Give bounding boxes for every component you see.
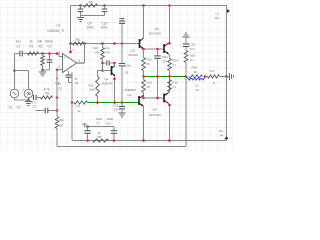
transistor Q5 2SC5200 bbox=[163, 44, 165, 53]
resistor R15z bbox=[184, 51, 188, 63]
wire Q5 emitter bbox=[169, 54, 170, 55]
svg-text:R17: R17 bbox=[210, 69, 216, 73]
svg-text:10: 10 bbox=[194, 70, 198, 74]
svg-text:2SA1943: 2SA1943 bbox=[149, 113, 162, 117]
svg-text:47n: 47n bbox=[190, 47, 195, 51]
node R2-C2 bbox=[48, 52, 51, 55]
node -in bbox=[56, 69, 59, 72]
op-amp U1 LM301A_TI bbox=[63, 54, 77, 73]
wire Q3 collector bbox=[143, 6, 145, 39]
flag fb top bbox=[85, 126, 88, 128]
capacitor C4 bbox=[80, 6, 82, 9]
svg-text:Q4: Q4 bbox=[153, 108, 157, 112]
node C3 bbox=[56, 109, 59, 112]
node R11 bottom bbox=[96, 101, 99, 104]
flag C16 top bbox=[120, 18, 125, 20]
node R7 left bbox=[71, 101, 74, 104]
svg-text:1u: 1u bbox=[196, 88, 200, 92]
capacitor C15 bbox=[183, 43, 189, 45]
node subrail-C8 bbox=[121, 42, 124, 45]
resistor R4 bbox=[56, 111, 58, 117]
node R9-Q1base bbox=[101, 69, 104, 72]
wire U1 -in pin bbox=[57, 69, 63, 71]
capacitor C14 bbox=[157, 49, 159, 56]
resistor R5 bbox=[84, 4, 98, 7]
capacitor C8 bbox=[119, 63, 125, 65]
node +in bend bbox=[56, 52, 59, 55]
svg-text:2SC5200: 2SC5200 bbox=[149, 32, 162, 36]
node R3 bbox=[56, 96, 59, 99]
node Q3e bbox=[142, 48, 145, 51]
wire V2 stub bbox=[15, 70, 29, 72]
node C14 top bbox=[156, 48, 159, 51]
wire U1 output bbox=[77, 62, 85, 64]
svg-text:C5: C5 bbox=[75, 81, 79, 85]
inductor L1 bbox=[190, 79, 204, 81]
svg-text:100n: 100n bbox=[87, 26, 94, 30]
wire output up to R6 bbox=[84, 44, 86, 64]
wire left input column bbox=[14, 54, 16, 89]
svg-text:-: - bbox=[64, 68, 65, 72]
capacitor C13 bbox=[121, 103, 123, 107]
svg-text:10: 10 bbox=[190, 58, 194, 62]
svg-text:C10: C10 bbox=[106, 122, 112, 126]
node R14 bot bbox=[168, 75, 171, 78]
svg-text:C2: C2 bbox=[48, 45, 52, 49]
svg-text:15v: 15v bbox=[219, 129, 224, 133]
resistor R8fb bbox=[93, 139, 109, 142]
svg-text:+: + bbox=[64, 56, 66, 60]
wire fb column down bbox=[71, 103, 73, 141]
transistor Q3 BD139 bbox=[139, 39, 141, 48]
svg-text:1k: 1k bbox=[30, 40, 34, 44]
capacitor C5 comp bbox=[66, 74, 72, 76]
svg-text:LM301A_TI: LM301A_TI bbox=[48, 29, 65, 33]
svg-text:Q2: Q2 bbox=[128, 93, 132, 97]
svg-text:R3: R3 bbox=[46, 92, 50, 96]
wire Q4 emitter up bbox=[169, 92, 170, 94]
node C10b bottom bbox=[113, 139, 116, 142]
wire Q1 base row bbox=[98, 70, 112, 72]
transistor Q1 MJE340 bbox=[111, 66, 113, 75]
resistor R6 bbox=[73, 42, 84, 45]
wire C6 row bbox=[103, 62, 106, 64]
svg-text:R4: R4 bbox=[60, 119, 64, 123]
ground load bbox=[227, 76, 230, 78]
wire Q4 collector down bbox=[169, 104, 170, 105]
wire U1 pin7 bbox=[70, 44, 72, 54]
node R2 gnd bbox=[41, 69, 44, 72]
svg-text:R9: R9 bbox=[96, 51, 100, 55]
svg-text:L2: L2 bbox=[216, 12, 220, 16]
wire to load node bbox=[220, 76, 227, 78]
node Q2e rail bbox=[142, 139, 145, 142]
resistor R12 bbox=[143, 49, 145, 58]
svg-text:V4: V4 bbox=[220, 134, 224, 138]
node C6-Q1 bbox=[113, 62, 116, 65]
node L1 right bbox=[204, 75, 207, 78]
wire Q5 base row bbox=[144, 48, 165, 50]
svg-text:3p: 3p bbox=[75, 77, 79, 81]
node subrail-Q1 bbox=[113, 42, 116, 45]
comp pin 1 bbox=[68, 71, 70, 75]
wire Q3 emitter bbox=[143, 48, 145, 50]
svg-text:Q1: Q1 bbox=[105, 77, 109, 81]
wire top +V rail bbox=[71, 5, 227, 7]
node fb top bbox=[86, 125, 89, 128]
resistor R7 bbox=[74, 101, 88, 104]
svg-text:R2: R2 bbox=[39, 45, 43, 49]
wire V1 bottom bbox=[14, 98, 16, 100]
wire R4 to ground line bbox=[56, 129, 58, 147]
svg-text:100n: 100n bbox=[125, 64, 132, 68]
wire left rail drop to sub-rail bbox=[70, 6, 72, 44]
svg-text:C1: C1 bbox=[17, 45, 21, 49]
capacitor C7 bbox=[87, 127, 89, 131]
svg-text:C6: C6 bbox=[106, 51, 110, 55]
node subrail-R9 bbox=[101, 42, 104, 45]
svg-text:100u: 100u bbox=[101, 26, 108, 30]
svg-text:56: 56 bbox=[147, 85, 151, 89]
svg-text:C3: C3 bbox=[58, 87, 62, 91]
svg-text:10u: 10u bbox=[16, 40, 22, 44]
node Q5c bbox=[168, 42, 171, 45]
svg-text:1k: 1k bbox=[78, 109, 82, 113]
svg-text:10u: 10u bbox=[114, 108, 119, 112]
resistor R2 bbox=[41, 56, 45, 66]
node Q1e row bbox=[113, 101, 116, 104]
wire bottom -V rail bbox=[72, 140, 227, 142]
node subrail-U1 bbox=[69, 42, 72, 45]
wire V1 top bbox=[14, 88, 16, 91]
wire Q1 collector bbox=[114, 63, 116, 66]
capacitor C2 bbox=[49, 54, 51, 60]
ground sources bbox=[25, 101, 32, 103]
wire U1 +in pin bbox=[59, 56, 63, 58]
wire input row bbox=[15, 53, 19, 55]
resistor R13 bbox=[142, 80, 146, 93]
svg-text:U1: U1 bbox=[57, 24, 61, 28]
resistor R9 bbox=[101, 48, 105, 60]
wire Q4 base row bbox=[144, 97, 165, 99]
capacitor C6 bbox=[106, 60, 108, 65]
node Q1 emitter bbox=[113, 78, 116, 81]
capacitor C10 bbox=[104, 6, 106, 9]
wire Q5 collector bbox=[169, 6, 171, 44]
svg-text:C2: C2 bbox=[33, 105, 37, 109]
svg-text:R18: R18 bbox=[190, 54, 196, 58]
node R9 bottom bbox=[101, 62, 104, 65]
ground C13 bbox=[118, 112, 125, 114]
node Q4 base row left bbox=[142, 97, 145, 100]
svg-text:100u: 100u bbox=[107, 117, 114, 121]
resistor R15 bbox=[168, 80, 172, 92]
capacitor C3 bbox=[44, 108, 46, 113]
svg-text:0.1: 0.1 bbox=[173, 85, 177, 89]
wire green feedback row bbox=[88, 102, 140, 104]
svg-text:1u: 1u bbox=[58, 82, 62, 86]
resistor R17 bbox=[205, 76, 208, 78]
transistor Q2 MJE350 bbox=[138, 96, 140, 105]
wire -in column bbox=[56, 70, 58, 98]
svg-text:V1: V1 bbox=[9, 106, 13, 110]
svg-text:R6: R6 bbox=[76, 38, 80, 42]
svg-text:R15: R15 bbox=[173, 81, 179, 85]
wire ground return y146 bbox=[57, 146, 186, 148]
svg-text:R7: R7 bbox=[77, 105, 81, 109]
resistor R11 bbox=[97, 71, 99, 77]
svg-text:C8: C8 bbox=[125, 71, 129, 75]
svg-text:BD139: BD139 bbox=[129, 53, 139, 57]
svg-text:R16: R16 bbox=[192, 66, 198, 70]
svg-text:C15: C15 bbox=[190, 43, 196, 47]
svg-text:R1: R1 bbox=[30, 45, 34, 49]
wire fb top row bbox=[88, 126, 115, 128]
svg-text:R5: R5 bbox=[89, 1, 93, 5]
wire source row bbox=[32, 97, 35, 99]
node rail-Q3 bbox=[142, 4, 145, 7]
svg-text:10u: 10u bbox=[215, 16, 220, 20]
node zobel bbox=[185, 75, 188, 78]
svg-text:MJE340: MJE340 bbox=[102, 82, 113, 86]
wire sub-rail y43 bbox=[71, 43, 140, 45]
resistor R1 bbox=[28, 52, 39, 55]
wire V2 bottom bbox=[28, 98, 30, 100]
svg-text:56: 56 bbox=[147, 62, 151, 66]
node output bbox=[225, 75, 228, 78]
svg-text:L1: L1 bbox=[196, 84, 200, 88]
node V2 tap bbox=[13, 69, 16, 72]
capacitor C10b bbox=[113, 127, 115, 131]
resistor R3 bbox=[41, 96, 53, 99]
wire right supply edge bbox=[226, 6, 228, 141]
source V1 bbox=[10, 89, 19, 98]
svg-text:680p: 680p bbox=[46, 40, 53, 44]
node C7 bottom bbox=[86, 139, 89, 142]
wire Q1 emitter bbox=[114, 76, 116, 103]
svg-text:100n: 100n bbox=[96, 117, 103, 121]
wire decoupling bottoms bbox=[81, 15, 105, 17]
resistor R14 bbox=[168, 59, 172, 71]
ground decoupling bbox=[77, 17, 84, 19]
svg-text:10k: 10k bbox=[90, 88, 95, 92]
transistor Q4 2SA1943 bbox=[163, 94, 165, 103]
capacitor C1 bbox=[19, 51, 21, 57]
svg-text:1k: 1k bbox=[60, 124, 64, 128]
wire R2 C2 bottoms bbox=[42, 66, 44, 71]
source V2 bbox=[24, 89, 33, 98]
ground input bbox=[39, 71, 46, 73]
svg-text:0.1: 0.1 bbox=[173, 63, 177, 67]
svg-text:C7: C7 bbox=[97, 122, 101, 126]
wire Q2 emitter down bbox=[143, 106, 145, 140]
node Q4c rail bbox=[168, 139, 171, 142]
svg-text:MJE350: MJE350 bbox=[125, 88, 136, 92]
node subrail-R6R bbox=[83, 42, 86, 45]
svg-text:Q5: Q5 bbox=[155, 27, 159, 31]
svg-text:100n: 100n bbox=[162, 55, 169, 59]
svg-text:Q3: Q3 bbox=[131, 49, 135, 53]
svg-text:12p: 12p bbox=[105, 46, 110, 50]
svg-text:C14: C14 bbox=[162, 60, 168, 64]
svg-text:R14: R14 bbox=[173, 59, 179, 63]
svg-text:R12: R12 bbox=[147, 58, 153, 62]
wire output row green bbox=[144, 76, 187, 78]
svg-text:R8: R8 bbox=[98, 135, 102, 139]
node R1-R2 bbox=[41, 52, 44, 55]
wire C8 column bbox=[121, 44, 123, 64]
wire zobel column down to ground line bbox=[185, 77, 187, 147]
node rail-C10 bbox=[103, 4, 106, 7]
node rail-Q5 bbox=[168, 4, 171, 7]
capacitor C16 bbox=[119, 20, 125, 22]
tick on right rail bbox=[227, 9, 230, 13]
tick bottom right bbox=[224, 136, 228, 139]
node R12-R13 bbox=[142, 75, 145, 78]
comp pin 8 / feedback column bbox=[71, 72, 73, 103]
ground zobel bbox=[182, 36, 189, 38]
svg-text:100: 100 bbox=[93, 46, 98, 50]
node x157 row bbox=[156, 97, 159, 100]
svg-text:10k: 10k bbox=[37, 40, 43, 44]
node V2 gnd bbox=[27, 99, 30, 102]
capacitor C2b bbox=[33, 95, 35, 100]
svg-text:R13: R13 bbox=[147, 81, 153, 85]
node C14 bot bbox=[156, 75, 159, 78]
node rail-C4 bbox=[79, 4, 82, 7]
svg-text:V2: V2 bbox=[17, 106, 21, 110]
node C8 row bbox=[121, 101, 124, 104]
wire bbox=[36, 97, 41, 99]
resistor R16 bbox=[189, 75, 203, 78]
node Q4c join bbox=[168, 104, 171, 107]
wire C14 column lower bbox=[157, 77, 159, 99]
